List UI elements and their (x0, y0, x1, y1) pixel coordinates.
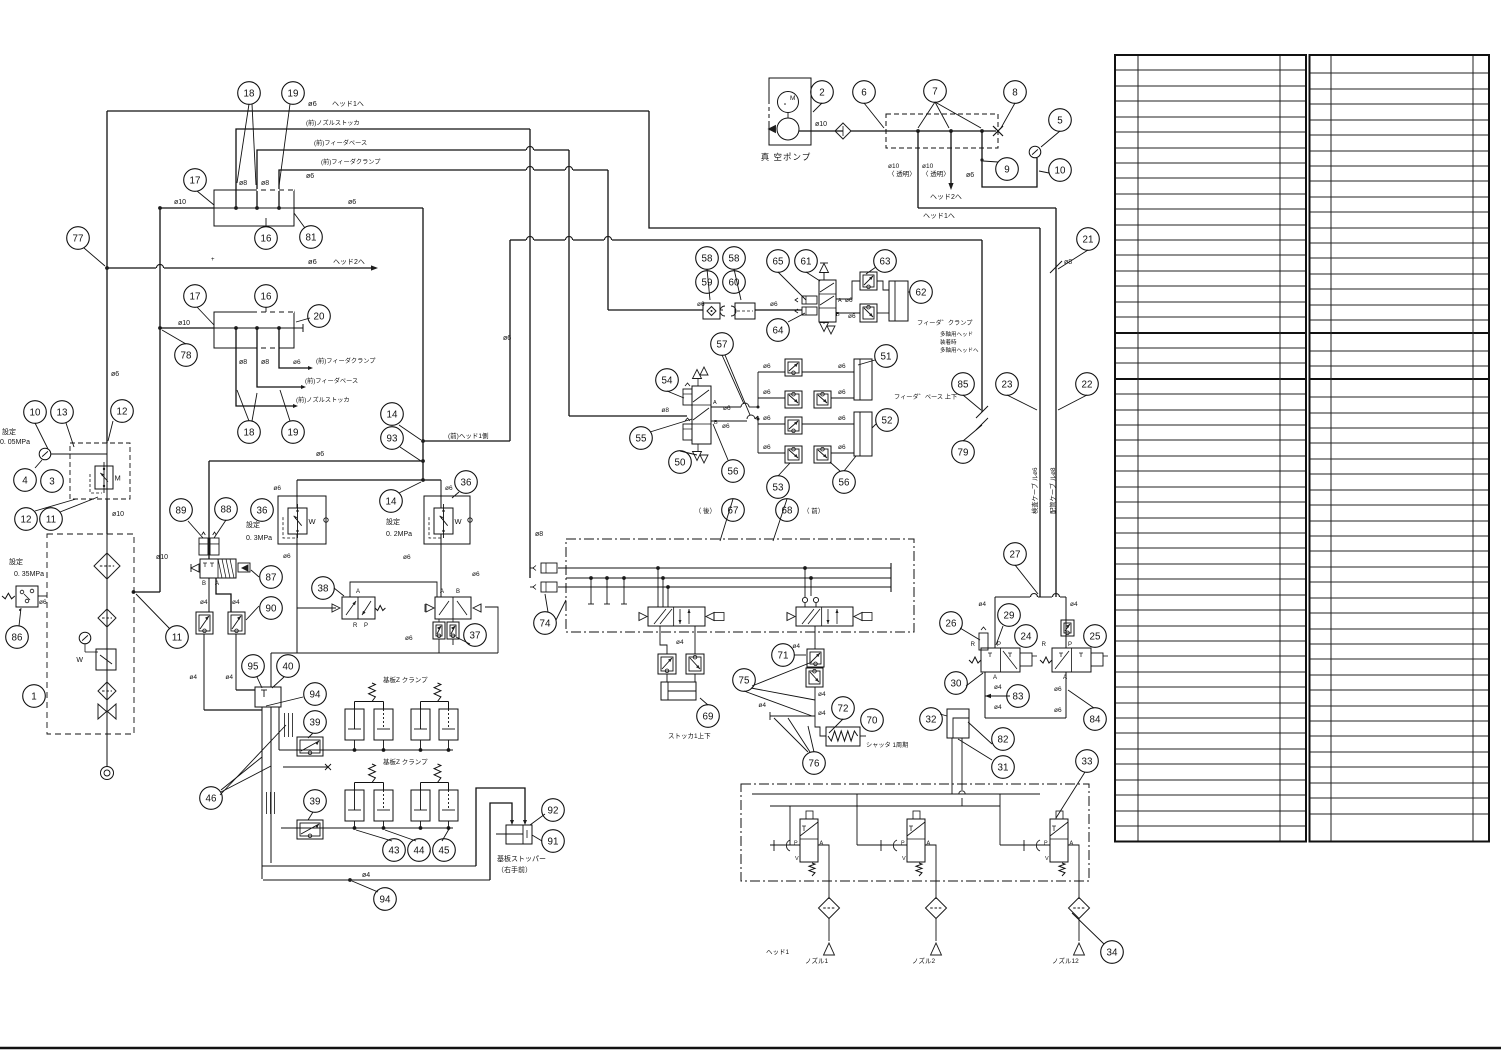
svg-text:ヘッド1: ヘッド1 (766, 949, 790, 956)
svg-text:8: 8 (1012, 87, 1018, 98)
svg-text:P: P (364, 623, 368, 629)
svg-text:設定: 設定 (386, 517, 400, 526)
svg-text:9: 9 (1004, 164, 1009, 175)
svg-text:ノズル1: ノズル1 (805, 956, 829, 965)
svg-text:〈 透明〉: 〈 透明〉 (888, 170, 916, 178)
svg-text:ø4: ø4 (994, 704, 1002, 711)
svg-text:14: 14 (386, 496, 397, 507)
svg-text:ø6: ø6 (722, 423, 730, 430)
svg-text:36: 36 (257, 505, 268, 516)
svg-text:(前)フィーダベース: (前)フィーダベース (305, 377, 358, 385)
svg-text:R: R (971, 642, 976, 648)
svg-text:33: 33 (1082, 756, 1093, 767)
svg-text:設定: 設定 (246, 520, 260, 529)
svg-text:(前)フィーダクランプ: (前)フィーダクランプ (316, 357, 376, 365)
svg-text:90: 90 (266, 603, 277, 614)
svg-text:10: 10 (1055, 165, 1066, 176)
svg-text:ø10: ø10 (922, 163, 934, 170)
svg-text:ø4: ø4 (818, 691, 826, 698)
svg-text:18: 18 (244, 88, 255, 99)
svg-text:22: 22 (1082, 379, 1093, 390)
svg-text:18: 18 (244, 427, 255, 438)
svg-text:ø6: ø6 (697, 301, 705, 308)
svg-text:53: 53 (773, 482, 784, 493)
svg-text:85: 85 (958, 379, 969, 390)
svg-text:82: 82 (998, 734, 1009, 745)
svg-text:23: 23 (1002, 379, 1013, 390)
svg-text:(前)フィーダクランプ: (前)フィーダクランプ (321, 158, 381, 166)
svg-text:32: 32 (926, 714, 937, 725)
svg-text:92: 92 (548, 805, 559, 816)
svg-text:34: 34 (1107, 947, 1118, 958)
svg-text:（ 後）: （ 後） (695, 506, 716, 515)
svg-text:ø8: ø8 (261, 180, 269, 187)
svg-text:シャッタ 1周期: シャッタ 1周期 (866, 741, 908, 749)
svg-text:ø10: ø10 (112, 511, 124, 518)
svg-text:0. 2MPa: 0. 2MPa (386, 531, 412, 538)
svg-text:24: 24 (1021, 631, 1032, 642)
svg-text:17: 17 (190, 175, 201, 186)
svg-text:65: 65 (773, 256, 784, 267)
svg-text:ø10: ø10 (815, 121, 827, 128)
svg-text:基板Z クランプ: 基板Z クランプ (383, 757, 428, 766)
svg-text:38: 38 (318, 583, 329, 594)
svg-text:29: 29 (1004, 610, 1015, 621)
svg-text:〈 透明〉: 〈 透明〉 (922, 170, 950, 178)
svg-text:B: B (456, 589, 460, 595)
svg-text:(前)ヘッド1側: (前)ヘッド1側 (448, 431, 489, 440)
svg-text:ø4: ø4 (200, 599, 208, 606)
svg-text:ø6: ø6 (283, 553, 291, 560)
svg-text:B: B (202, 581, 206, 587)
svg-text:A: A (440, 589, 444, 595)
svg-text:56: 56 (839, 477, 850, 488)
svg-text:ø4: ø4 (1070, 601, 1078, 608)
svg-text:ヘッド2へ: ヘッド2へ (930, 194, 962, 201)
svg-text:55: 55 (636, 433, 647, 444)
svg-text:ø6: ø6 (403, 554, 411, 561)
svg-text:12: 12 (117, 406, 128, 417)
svg-text:4: 4 (22, 475, 28, 486)
svg-text:0. 05MPa: 0. 05MPa (0, 439, 30, 446)
svg-text:21: 21 (1083, 234, 1094, 245)
svg-text:0. 3MPa: 0. 3MPa (246, 535, 272, 542)
svg-text:31: 31 (998, 762, 1009, 773)
svg-text:62: 62 (916, 287, 927, 298)
svg-text:ø6: ø6 (348, 199, 356, 206)
svg-text:57: 57 (717, 339, 728, 350)
svg-text:ø6: ø6 (39, 599, 47, 606)
svg-text:88: 88 (221, 504, 232, 515)
svg-text:39: 39 (310, 717, 321, 728)
svg-text:69: 69 (703, 711, 714, 722)
svg-text:91: 91 (548, 836, 559, 847)
svg-text:ø4: ø4 (792, 643, 800, 650)
svg-text:46: 46 (206, 793, 217, 804)
svg-text:14: 14 (387, 409, 398, 420)
svg-text:68: 68 (782, 505, 793, 516)
svg-text:多軸用ヘッドへ: 多軸用ヘッドへ (940, 346, 979, 354)
svg-text:25: 25 (1090, 631, 1101, 642)
svg-text:ø6: ø6 (763, 415, 771, 422)
svg-text:19: 19 (288, 427, 299, 438)
svg-text:58: 58 (729, 253, 740, 264)
svg-text:ø6: ø6 (723, 405, 731, 412)
svg-text:P: P (1068, 642, 1072, 648)
svg-text:P: P (794, 841, 798, 847)
svg-text:36: 36 (461, 477, 472, 488)
svg-text:ø10: ø10 (156, 554, 168, 561)
svg-text:58: 58 (702, 253, 713, 264)
svg-text:ø6: ø6 (273, 485, 281, 492)
svg-text:ø6: ø6 (966, 172, 974, 179)
svg-text:50: 50 (675, 457, 686, 468)
svg-text:11: 11 (46, 514, 56, 525)
svg-text:P: P (901, 841, 905, 847)
svg-text:(前)ノズルストッカ: (前)ノズルストッカ (296, 396, 350, 404)
svg-text:ø8: ø8 (535, 531, 543, 538)
svg-text:ø6: ø6 (316, 451, 324, 458)
svg-text:ø4: ø4 (978, 601, 986, 608)
svg-text:94: 94 (310, 689, 321, 700)
svg-text:ø6: ø6 (848, 313, 856, 320)
svg-text:56: 56 (728, 466, 739, 477)
svg-text:2: 2 (819, 87, 824, 98)
svg-text:W: W (455, 517, 463, 526)
svg-text:72: 72 (838, 703, 849, 714)
svg-text:ø6: ø6 (293, 359, 301, 366)
svg-text:A: A (1070, 841, 1074, 847)
svg-text:ヘッド1へ: ヘッド1へ (923, 213, 955, 220)
svg-text:真 空ポンプ: 真 空ポンプ (761, 152, 812, 162)
svg-text:10: 10 (30, 407, 41, 418)
svg-text:17: 17 (190, 291, 201, 302)
svg-text:ø4: ø4 (818, 710, 826, 717)
svg-text:ø6: ø6 (838, 363, 846, 370)
svg-text:83: 83 (1013, 691, 1024, 702)
svg-text:ø6: ø6 (838, 389, 846, 396)
svg-text:A: A (927, 841, 931, 847)
svg-text:W: W (76, 657, 83, 664)
svg-text:A: A (713, 400, 717, 406)
svg-text:P: P (997, 642, 1001, 648)
svg-text:A: A (356, 589, 360, 595)
svg-text:ストッカ1上下: ストッカ1上下 (668, 731, 711, 740)
svg-text:検査ケーブ ルø6: 検査ケーブ ルø6 (1030, 467, 1039, 514)
svg-text:ø8: ø8 (261, 359, 269, 366)
svg-text:61: 61 (801, 256, 812, 267)
svg-text:（右手前）: （右手前） (497, 865, 532, 874)
svg-text:ø4: ø4 (362, 872, 370, 879)
svg-text:81: 81 (306, 232, 317, 243)
svg-text:ø6: ø6 (1054, 707, 1062, 714)
svg-text:27: 27 (1010, 549, 1021, 560)
svg-text:ø8: ø8 (661, 407, 669, 414)
svg-text:87: 87 (266, 572, 277, 583)
svg-text:フィーダ゛クランプ: フィーダ゛クランプ (917, 319, 973, 327)
svg-text:ø6: ø6 (111, 371, 119, 378)
svg-text:75: 75 (739, 675, 750, 686)
svg-text:(前)フィーダベース: (前)フィーダベース (314, 139, 367, 147)
svg-text:45: 45 (439, 845, 450, 856)
svg-text:63: 63 (880, 256, 891, 267)
svg-text:11: 11 (172, 632, 182, 643)
svg-text:V: V (795, 856, 799, 862)
svg-text:51: 51 (881, 351, 892, 362)
svg-text:ø10: ø10 (178, 320, 190, 327)
svg-text:装着時: 装着時 (940, 338, 957, 346)
svg-text:78: 78 (181, 350, 192, 361)
svg-text:43: 43 (389, 845, 400, 856)
svg-text:84: 84 (1090, 714, 1101, 725)
svg-text:19: 19 (288, 88, 299, 99)
svg-text:54: 54 (662, 375, 673, 386)
svg-text:86: 86 (12, 632, 23, 643)
svg-text:13: 13 (57, 407, 68, 418)
svg-text:M: M (115, 473, 121, 482)
svg-text:ø6: ø6 (308, 99, 317, 108)
svg-text:74: 74 (540, 618, 551, 629)
svg-text:ノズル12: ノズル12 (1052, 956, 1079, 965)
svg-text:71: 71 (778, 650, 789, 661)
svg-text:0. 35MPa: 0. 35MPa (14, 571, 44, 578)
svg-text:52: 52 (882, 415, 893, 426)
svg-text:64: 64 (773, 325, 784, 336)
svg-text:ø4: ø4 (758, 702, 766, 709)
svg-text:67: 67 (728, 505, 739, 516)
svg-text:89: 89 (176, 505, 187, 516)
svg-text:40: 40 (283, 661, 294, 672)
svg-text:ø4: ø4 (232, 599, 240, 606)
svg-text:配管ケーブ ルø8: 配管ケーブ ルø8 (1048, 467, 1057, 514)
svg-text:基板Z クランプ: 基板Z クランプ (383, 675, 428, 684)
svg-text:5: 5 (1057, 115, 1063, 126)
svg-text:R: R (353, 623, 358, 629)
svg-text:94: 94 (380, 894, 391, 905)
svg-text:59: 59 (702, 277, 713, 288)
svg-text:70: 70 (867, 715, 878, 726)
svg-text:79: 79 (958, 447, 969, 458)
svg-text:1: 1 (31, 691, 36, 702)
svg-text:ø6: ø6 (1054, 686, 1062, 693)
svg-text:ø4: ø4 (189, 674, 197, 681)
svg-text:M: M (790, 95, 795, 102)
svg-text:ø6: ø6 (838, 415, 846, 422)
svg-text:P: P (1044, 841, 1048, 847)
svg-text:ø10: ø10 (888, 163, 900, 170)
svg-text:ø4: ø4 (225, 674, 233, 681)
svg-text:16: 16 (261, 291, 272, 302)
svg-text:ø6: ø6 (763, 389, 771, 396)
svg-text:77: 77 (73, 233, 84, 244)
svg-text:設定: 設定 (2, 427, 16, 436)
svg-text:ø6: ø6 (763, 363, 771, 370)
svg-text:ø6: ø6 (770, 301, 778, 308)
svg-text:ø4: ø4 (994, 684, 1002, 691)
svg-text:93: 93 (387, 433, 398, 444)
svg-text:39: 39 (310, 796, 321, 807)
svg-text:多軸用ヘッド: 多軸用ヘッド (940, 330, 973, 338)
svg-text:ø6: ø6 (503, 335, 511, 342)
svg-text:7: 7 (932, 86, 937, 97)
svg-text:95: 95 (248, 661, 259, 672)
svg-text:6: 6 (861, 87, 867, 98)
svg-text:ヘッド1へ: ヘッド1へ (332, 101, 364, 108)
svg-text:R: R (1042, 642, 1047, 648)
svg-text:16: 16 (261, 233, 272, 244)
svg-text:44: 44 (414, 845, 425, 856)
svg-text:3: 3 (49, 476, 55, 487)
svg-text:設定: 設定 (9, 557, 23, 566)
svg-text:ø8: ø8 (239, 359, 247, 366)
svg-text:37: 37 (470, 630, 481, 641)
svg-text:（ 前）: （ 前） (803, 506, 824, 515)
svg-text:W: W (309, 517, 317, 526)
svg-text:ø6: ø6 (838, 444, 846, 451)
svg-text:26: 26 (946, 618, 957, 629)
svg-text:12: 12 (21, 514, 32, 525)
svg-text:V: V (1045, 856, 1049, 862)
svg-text:A: A (993, 675, 997, 681)
svg-text:ø6: ø6 (763, 444, 771, 451)
svg-text:V: V (902, 856, 906, 862)
svg-text:20: 20 (314, 311, 325, 322)
svg-text:ø10: ø10 (174, 199, 186, 206)
svg-text:ø6: ø6 (308, 257, 317, 266)
svg-text:60: 60 (729, 277, 740, 288)
svg-text:A: A (820, 841, 824, 847)
svg-text:30: 30 (951, 678, 962, 689)
svg-text:ヘッド2へ: ヘッド2へ (333, 259, 365, 266)
svg-text:ø6: ø6 (306, 173, 314, 180)
svg-text:基板ストッパー: 基板ストッパー (497, 854, 546, 863)
svg-text:+: + (211, 257, 215, 263)
svg-text:ø8: ø8 (239, 180, 247, 187)
svg-text:ø6: ø6 (445, 485, 453, 492)
svg-text:フィーダ゛ベース 上下: フィーダ゛ベース 上下 (894, 393, 957, 401)
svg-text:(前)ノズルストッカ: (前)ノズルストッカ (306, 119, 360, 127)
svg-text:ø6: ø6 (472, 571, 480, 578)
svg-text:ノズル2: ノズル2 (912, 956, 936, 965)
svg-text:ø4: ø4 (676, 639, 684, 646)
svg-text:76: 76 (809, 758, 820, 769)
svg-text:ø6: ø6 (405, 635, 413, 642)
